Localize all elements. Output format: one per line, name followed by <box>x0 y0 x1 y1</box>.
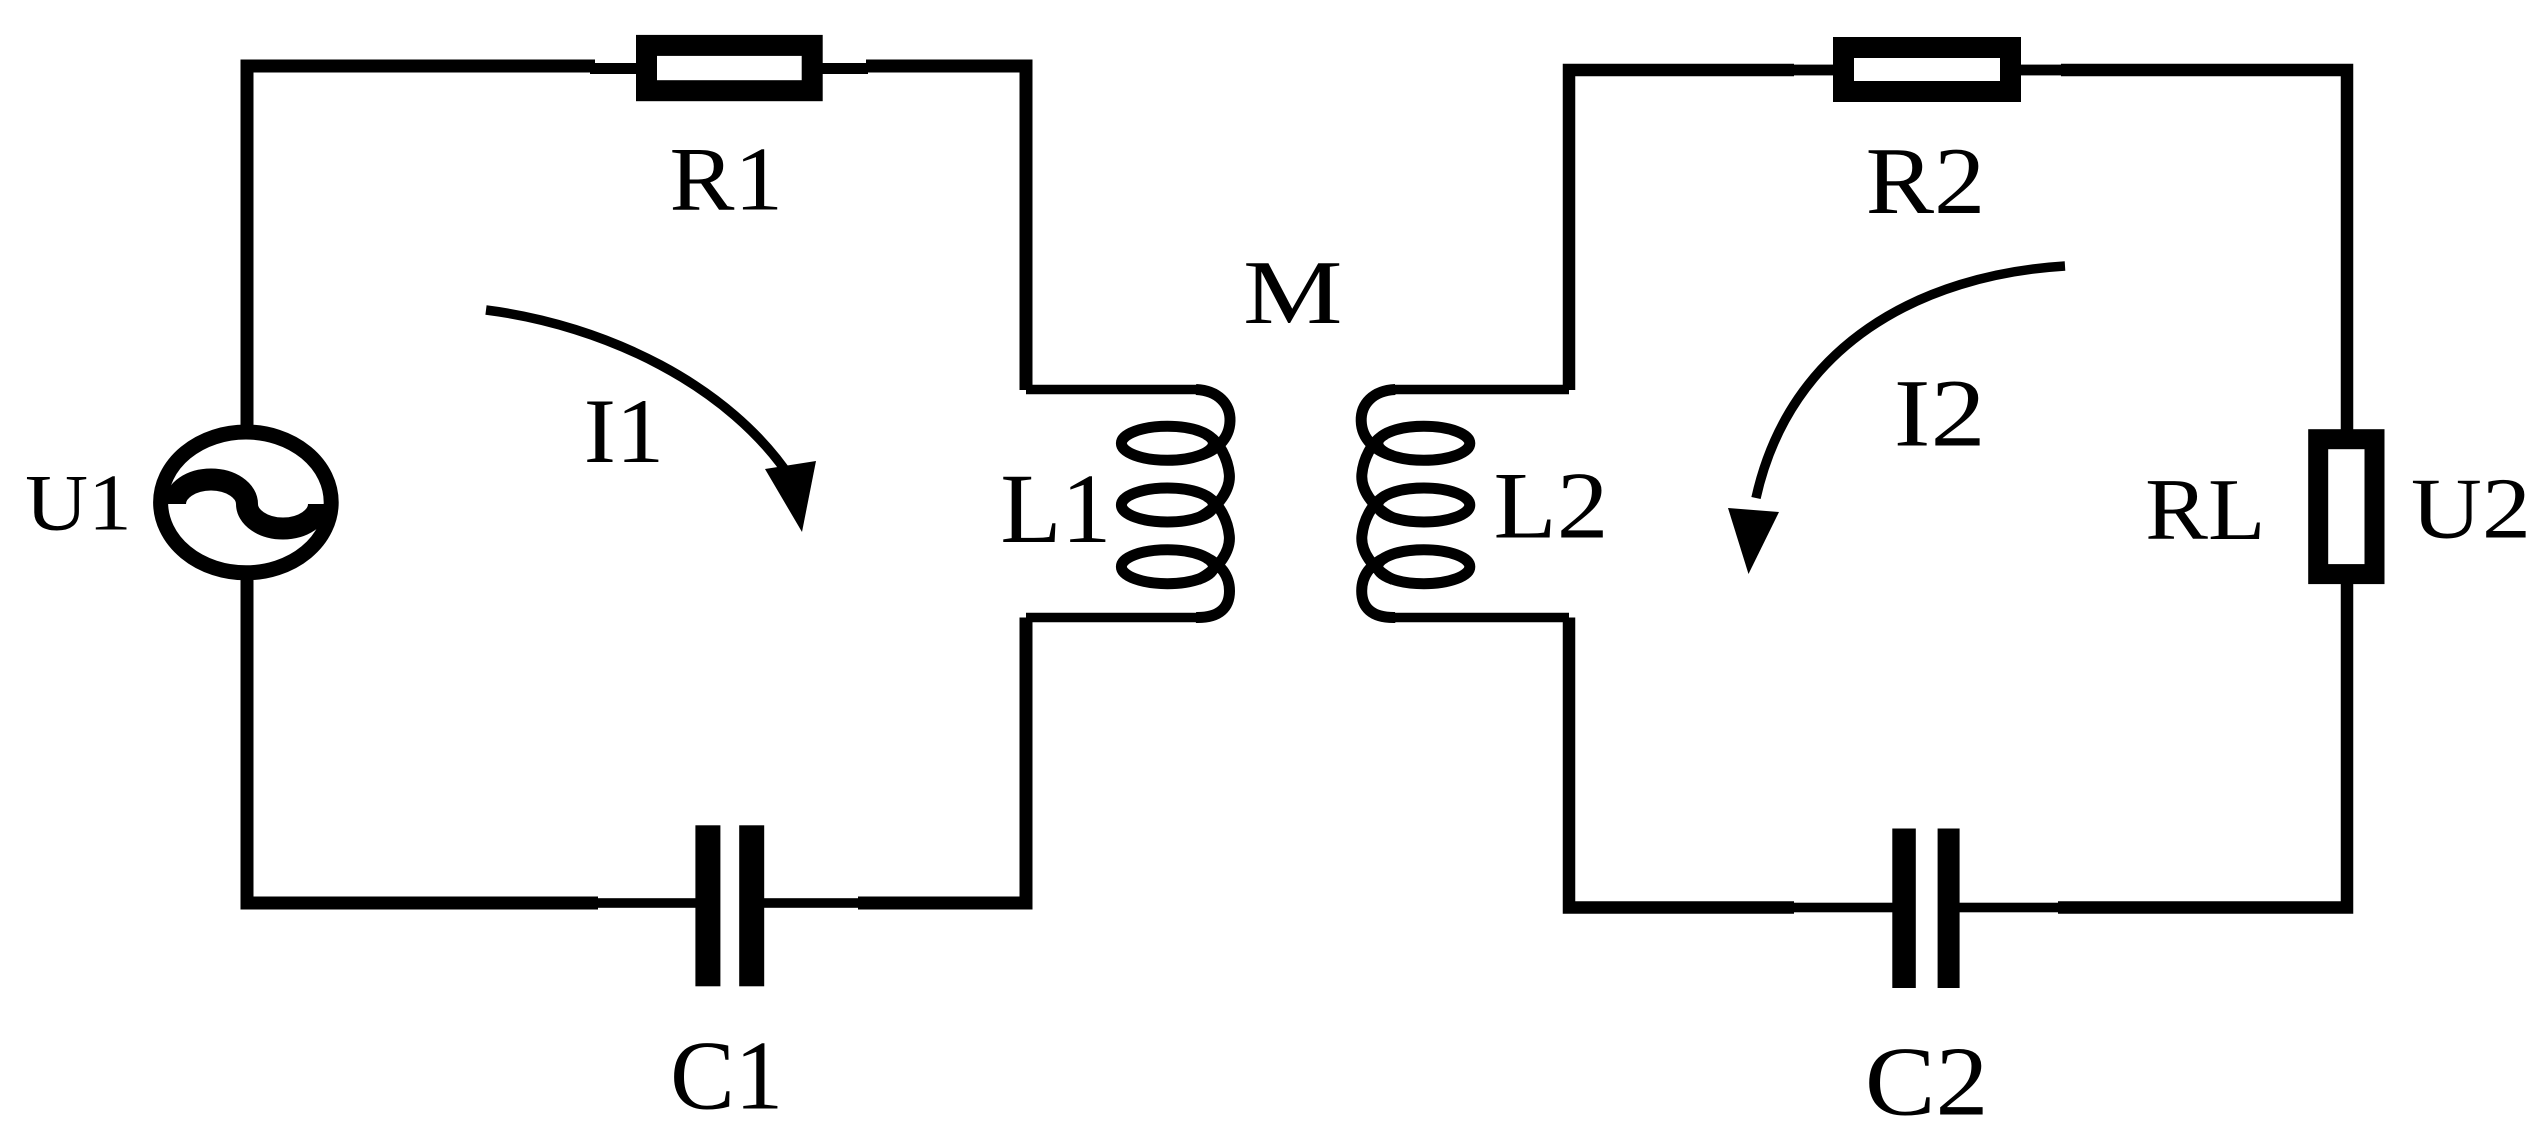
inductor L2 loop 3 <box>1378 550 1470 584</box>
inductor L2 bottom hook <box>1362 558 1396 618</box>
svg-text:U2: U2 <box>2411 461 2528 558</box>
resistor R2 body <box>1844 48 2011 92</box>
current arrow I2 curve <box>1756 266 2065 498</box>
inductor L1 connector arc 1 <box>1198 434 1229 518</box>
AC source U1 circle <box>161 432 332 573</box>
svg-text:U1: U1 <box>25 459 132 548</box>
capacitor C2 right plate <box>1938 829 1960 989</box>
inductor L1 loop 3 <box>1121 550 1213 584</box>
wire left-loop top-left + left + bottom-left segment <box>247 66 598 903</box>
node: L1 top lead <box>1026 385 1200 395</box>
resistor RL body <box>2318 439 2374 574</box>
wire lead right of C1 <box>760 898 862 908</box>
svg-text:RL: RL <box>2145 461 2265 559</box>
AC source U1 sine wave <box>175 480 319 529</box>
svg-text:R2: R2 <box>1866 129 1986 234</box>
svg-text:L1: L1 <box>1000 453 1111 564</box>
inductor L1 bottom hook <box>1196 558 1230 618</box>
current arrow I1 head <box>765 461 816 532</box>
inductor L2 loop 1 <box>1378 426 1470 460</box>
node: L2 top lead <box>1391 385 1569 395</box>
node: L1 bottom lead <box>1026 613 1200 623</box>
resistor R1 body <box>647 45 813 90</box>
inductor L1 top hook <box>1196 390 1230 456</box>
capacitor C1 right plate <box>739 825 764 986</box>
svg-text:C1: C1 <box>670 1022 783 1131</box>
inductor L1 connector arc 2 <box>1198 496 1229 580</box>
wire right-loop top-left segment <box>1569 70 1794 390</box>
svg-text:I1: I1 <box>584 381 664 482</box>
svg-text:M: M <box>1243 243 1343 344</box>
inductor L1 loop 2 <box>1121 488 1213 522</box>
wire lead left of C2 <box>1789 903 1899 913</box>
inductor L1 loop 1 <box>1121 426 1213 460</box>
inductor L2 top hook <box>1361 390 1395 456</box>
svg-text:L2: L2 <box>1493 453 1608 558</box>
wire left-loop top-right segment <box>866 66 1026 390</box>
node: L2 bottom lead <box>1391 613 1569 623</box>
current arrow I2 head <box>1728 508 1779 574</box>
inductor L2 connector arc 2 <box>1362 496 1393 580</box>
wire right-loop top-right + right + bottom-right segment <box>2058 70 2347 908</box>
current arrow I1 curve <box>486 310 792 480</box>
wire lead right of R1 <box>812 63 868 74</box>
wire lead left of R2 <box>1787 65 1843 76</box>
wire lead left of C1 <box>595 898 702 908</box>
inductor L2 loop 2 <box>1378 488 1470 522</box>
svg-text:I2: I2 <box>1894 361 1986 467</box>
capacitor C2 gap <box>1914 818 1939 998</box>
wire lead right of C2 <box>1953 903 2063 913</box>
svg-text:C2: C2 <box>1865 1028 1989 1135</box>
wire right-loop bottom-left segment <box>1569 618 1794 908</box>
inductor L2 connector arc 1 <box>1362 434 1393 518</box>
capacitor C1 left plate <box>695 825 720 986</box>
capacitor C2 left plate <box>1892 829 1916 989</box>
wire lead right of R2 <box>2011 65 2067 76</box>
wire left-loop bottom-right segment <box>858 618 1026 904</box>
capacitor C1 gap <box>718 815 742 995</box>
svg-text:R1: R1 <box>669 129 783 229</box>
wire lead left of R1 <box>590 63 646 74</box>
